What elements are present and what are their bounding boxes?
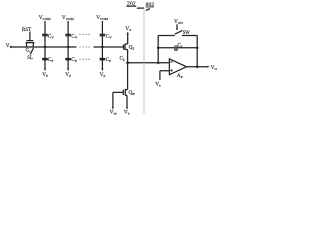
svg-text:VP: VP (65, 72, 71, 78)
svg-text:VP: VP (100, 72, 106, 78)
svg-text:802: 802 (146, 2, 155, 8)
svg-text:Vb: Vb (124, 110, 130, 116)
svg-text:Vsb: Vsb (110, 110, 117, 116)
svg-text:VF: VF (6, 43, 12, 49)
svg-text:CL: CL (120, 55, 126, 61)
svg-text:CP: CP (106, 57, 112, 63)
svg-text:VCOM: VCOM (96, 15, 109, 21)
svg-text:Va: Va (155, 82, 161, 88)
svg-text:VCOM: VCOM (39, 15, 52, 21)
svg-text:CV: CV (71, 33, 78, 39)
svg-text:VP: VP (42, 72, 48, 78)
svg-text:VS: VS (125, 26, 131, 32)
svg-text:RST: RST (22, 27, 32, 33)
svg-text:VCOM: VCOM (62, 15, 75, 21)
svg-text:Cf: Cf (178, 43, 184, 49)
svg-text:VO: VO (211, 65, 218, 71)
svg-text:VSW: VSW (174, 19, 184, 25)
svg-text:CV: CV (48, 33, 55, 39)
svg-text:QS: QS (129, 44, 135, 50)
svg-text:SL: SL (27, 56, 33, 61)
svg-text:CV: CV (106, 33, 113, 39)
svg-text:Gr: Gr (26, 47, 32, 53)
svg-text:CP: CP (48, 57, 54, 63)
svg-text:SW: SW (183, 31, 191, 36)
svg-text:QB: QB (129, 90, 136, 96)
svg-text:202: 202 (127, 2, 136, 8)
svg-text:AP: AP (177, 73, 183, 79)
svg-text:CP: CP (71, 57, 77, 63)
